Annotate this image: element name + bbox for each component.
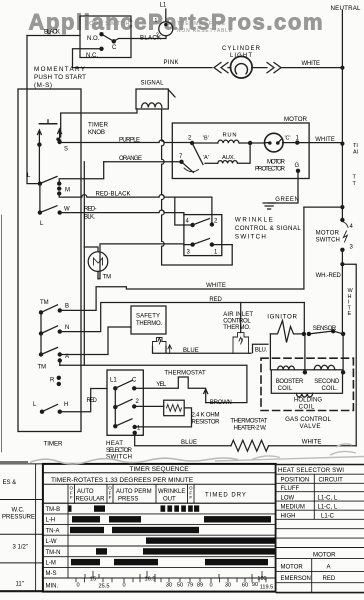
- svg-text:BLU.: BLU.: [255, 348, 268, 354]
- wire neutral lower: [341, 250, 343, 334]
- wire yel with thermostat: [143, 377, 205, 388]
- svg-text:0: 0: [122, 583, 125, 589]
- svg-text:NON RESETTABLE: NON RESETTABLE: [177, 28, 233, 34]
- svg-text:RED: RED: [209, 297, 222, 303]
- svg-text:C: C: [132, 378, 137, 384]
- svg-text:MOTOR: MOTOR: [313, 551, 336, 558]
- svg-text:30: 30: [166, 583, 172, 589]
- contact TM-B: [39, 310, 43, 314]
- svg-text:WHITE: WHITE: [302, 440, 322, 446]
- svg-text:(M-S): (M-S): [34, 82, 52, 89]
- svg-text:COIL: COIL: [278, 386, 293, 392]
- brown arrow up: [204, 389, 208, 403]
- svg-text:SAFETY: SAFETY: [136, 314, 160, 320]
- svg-text:COIL: COIL: [299, 405, 315, 411]
- svg-text:DOOR SWITCH: DOOR SWITCH: [85, 21, 130, 27]
- svg-text:RED: RED: [323, 576, 336, 582]
- crossing arrows right of lamp: [267, 63, 281, 73]
- svg-text:25.5: 25.5: [99, 584, 110, 590]
- wrinkle contact 4-2: [190, 223, 194, 227]
- wire blue: [153, 347, 252, 354]
- svg-text:TN-A: TN-A: [46, 528, 60, 534]
- svg-text:N: N: [65, 325, 69, 331]
- node booster-second: [303, 370, 307, 374]
- contact M dots: [57, 181, 61, 185]
- svg-text:TIMED DRY: TIMED DRY: [205, 492, 247, 498]
- svg-text:16.5: 16.5: [145, 577, 156, 583]
- svg-text:90: 90: [252, 582, 258, 588]
- motor terminal 2: [190, 141, 194, 145]
- gray squiggle bottom: [30, 458, 238, 464]
- wire sensor drop: [342, 334, 344, 372]
- motor protector: [265, 133, 284, 152]
- motor terminal 7: [179, 160, 183, 164]
- svg-text:TIMER SEQUENCE: TIMER SEQUENCE: [129, 466, 189, 473]
- svg-text:OUT: OUT: [163, 496, 176, 502]
- wire left dot drop: [38, 145, 40, 184]
- door switch N.O. contact: [99, 32, 103, 36]
- svg-text:F: F: [109, 495, 112, 500]
- svg-text:0: 0: [76, 583, 79, 589]
- svg-text:PROTECTOR: PROTECTOR: [255, 167, 286, 173]
- wire white drop from neutral: [303, 207, 305, 289]
- door switch N.C. contact: [99, 47, 103, 51]
- wire signal to S contact: [61, 109, 137, 137]
- wire N to red: [60, 303, 304, 332]
- svg-text:AppliancePartsPros.com: AppliancePartsPros.com: [29, 10, 323, 35]
- svg-text:2: 2: [156, 33, 159, 39]
- svg-text:119.5: 119.5: [260, 585, 274, 591]
- svg-text:NEUTRAL: NEUTRAL: [331, 5, 362, 12]
- svg-text:M: M: [65, 188, 70, 194]
- svg-text:WHITE: WHITE: [206, 283, 226, 289]
- timer sequence table frame: [43, 464, 276, 592]
- svg-text:MOTOR: MOTOR: [284, 116, 308, 123]
- svg-text:AUTO PERM: AUTO PERM: [116, 489, 152, 495]
- door switch box: [80, 16, 131, 58]
- wire 1 to signal bus: [212, 244, 232, 246]
- svg-text:G: G: [295, 163, 300, 169]
- svg-text:SWITCH: SWITCH: [316, 238, 340, 244]
- svg-text:L1-C, L: L1-C, L: [318, 495, 338, 501]
- wire resistor to 1: [135, 408, 192, 427]
- svg-text:LOW: LOW: [281, 495, 295, 501]
- wire coil mid drop: [304, 334, 306, 372]
- svg-text:R: R: [50, 378, 55, 384]
- svg-text:11": 11": [16, 582, 24, 588]
- wire bus vertical 84: [83, 162, 85, 365]
- wire motor white out: [297, 142, 342, 144]
- cylinder light LP1: [231, 56, 253, 78]
- svg-text:MOTOR: MOTOR: [267, 160, 286, 166]
- svg-text:TM-B: TM-B: [46, 507, 61, 513]
- svg-text:RUN: RUN: [223, 133, 237, 139]
- svg-text:N.O.: N.O.: [87, 36, 100, 42]
- wire RED to heat selector: [60, 389, 107, 412]
- svg-text:THERMAL FUSE: THERMAL FUSE: [177, 21, 226, 27]
- svg-text:YEL: YEL: [156, 382, 167, 388]
- svg-text:SENSOR: SENSOR: [313, 326, 337, 332]
- svg-text:HOLDING: HOLDING: [294, 398, 323, 404]
- svg-text:PINK: PINK: [164, 60, 179, 66]
- svg-text:GREEN: GREEN: [275, 197, 299, 203]
- svg-text:50: 50: [177, 583, 183, 589]
- svg-text:PURPLE: PURPLE: [119, 138, 140, 144]
- push to start button: [39, 123, 56, 125]
- svg-text:THERMO.: THERMO.: [136, 321, 162, 327]
- svg-text:RED-BLACK: RED-BLACK: [96, 192, 131, 198]
- heat selector switch box: [107, 370, 143, 435]
- timer box: [18, 89, 81, 432]
- wrinkle switch box: [184, 215, 222, 256]
- svg-text:60: 60: [242, 583, 248, 589]
- svg-text:TM: TM: [103, 275, 112, 281]
- svg-text:CYLINDER: CYLINDER: [222, 46, 261, 52]
- svg-text:TM: TM: [38, 365, 47, 371]
- svg-text:L1: L1: [160, 3, 167, 9]
- svg-text:THERMOSTAT: THERMOSTAT: [230, 419, 267, 425]
- ignitor element: [270, 321, 304, 343]
- wire green: [269, 171, 298, 203]
- svg-text:GAS CONTROL: GAS CONTROL: [285, 416, 331, 423]
- wire white to bus: [269, 445, 357, 447]
- bottom boundary: [0, 461, 28, 463]
- wire A lower to brown stub: [59, 361, 61, 366]
- wire air inlet to red: [240, 303, 242, 333]
- wire TM top to bus: [84, 247, 98, 252]
- svg-text:PRESSURE: PRESSURE: [2, 515, 35, 521]
- blue arrow: [168, 345, 172, 354]
- push to start contacts with arrows: [38, 129, 62, 145]
- motor centrifugal switch: [192, 143, 203, 165]
- wire red drop to ignitor: [303, 303, 305, 334]
- wire left dots vertical: [39, 184, 41, 213]
- timer sequence bars: [69, 505, 72, 511]
- svg-text:30: 30: [225, 583, 231, 589]
- svg-text:S: S: [64, 147, 68, 153]
- contact L upper: [38, 181, 42, 185]
- gas valve inner box: [271, 370, 342, 394]
- svg-text:SECOND: SECOND: [314, 379, 340, 385]
- wire ignitor left drop: [269, 334, 271, 370]
- timer minute scale: [75, 578, 77, 582]
- left cut-off table: [0, 464, 43, 592]
- timer motor TM: [88, 252, 108, 272]
- svg-text:BLUE: BLUE: [181, 440, 197, 446]
- svg-text:W: W: [64, 207, 70, 213]
- svg-text:MEDIUM: MEDIUM: [281, 505, 305, 511]
- wire neutral to drop: [304, 206, 343, 208]
- wire W to wrinkle box: [60, 210, 184, 215]
- wrinkle contact 3-1: [190, 242, 194, 246]
- svg-text:M-S: M-S: [46, 571, 57, 577]
- crossing arrows left of lamp: [214, 63, 228, 73]
- svg-text:HIGH: HIGH: [281, 514, 296, 520]
- svg-text:N.C.: N.C.: [86, 53, 98, 59]
- svg-text:TIMER-ROTATES 1.33 DEGREES PER: TIMER-ROTATES 1.33 DEGREES PER MINUTE: [51, 477, 194, 484]
- wire PINK: [73, 67, 213, 69]
- svg-text:B: B: [65, 304, 69, 310]
- contact TM-A: [39, 352, 43, 356]
- motor box: [172, 123, 309, 179]
- sensor element: [309, 331, 343, 334]
- svg-text:ES &: ES &: [3, 480, 17, 486]
- motor internal node: [248, 141, 252, 145]
- svg-text:79: 79: [187, 583, 193, 589]
- wire brown horizontal: [60, 365, 247, 402]
- motor terminal G: [296, 169, 300, 173]
- contact R dots: [57, 376, 61, 380]
- svg-text:KNOB: KNOB: [88, 129, 105, 136]
- svg-text:WH.-RED: WH.-RED: [316, 273, 342, 279]
- gas control valve dashed box: [261, 358, 353, 410]
- booster coil: [278, 366, 295, 370]
- svg-text:TI: TI: [353, 143, 358, 149]
- wire to lamp: [228, 67, 231, 69]
- svg-text:THERMO.: THERMO.: [223, 325, 251, 331]
- svg-text:MIN.: MIN.: [46, 584, 59, 590]
- svg-text:CONTROL & SIGNAL: CONTROL & SIGNAL: [235, 225, 301, 232]
- svg-text:L1-C: L1-C: [321, 514, 335, 520]
- wire A to safety thermo: [60, 327, 131, 355]
- wire 2 to resistor: [134, 405, 164, 407]
- signal coil: [142, 103, 162, 108]
- wire left dots vertical 2: [40, 312, 42, 354]
- svg-text:HEATER-2 W.: HEATER-2 W.: [234, 426, 267, 432]
- wire from N.C. to pink node: [73, 49, 102, 68]
- wire TM bottom to contact3 wire: [97, 271, 99, 278]
- page edge line: [1, 215, 3, 452]
- svg-text:WRINKLE: WRINKLE: [158, 489, 185, 495]
- motor aux winding: [205, 162, 218, 164]
- wire from door switch C to thermal fuse: [114, 36, 166, 42]
- svg-text:IGNITOR: IGNITOR: [267, 314, 297, 321]
- safety thermostat element: [153, 338, 167, 347]
- svg-text:BOOSTER: BOOSTER: [276, 379, 304, 385]
- svg-text:COIL.: COIL.: [322, 386, 339, 392]
- wire 3 to TM return: [98, 244, 193, 279]
- svg-text:H: H: [64, 402, 68, 408]
- wire B to white staircase: [60, 287, 304, 311]
- motor terminal 1: [295, 140, 299, 144]
- svg-text:15: 15: [90, 577, 96, 583]
- svg-text:SIGNAL: SIGNAL: [141, 81, 165, 87]
- svg-text:89: 89: [197, 583, 203, 589]
- resistor box 2.4K: [164, 400, 185, 416]
- contact W dot: [58, 210, 62, 214]
- svg-text:POSITION: POSITION: [281, 477, 310, 483]
- holding coil: [296, 393, 312, 397]
- svg-text:MOMENTARY: MOMENTARY: [34, 66, 86, 73]
- node neutral-motor: [340, 142, 344, 146]
- wire signal drop bus: [162, 109, 233, 265]
- svg-text:L-M: L-M: [46, 561, 56, 567]
- wire PURPLE: [60, 140, 193, 143]
- node wh-red: [340, 262, 344, 266]
- svg-text:L1: L1: [110, 378, 117, 384]
- node sensor right: [341, 332, 345, 336]
- wire ORANGE: [104, 161, 182, 163]
- resistor element: [167, 405, 182, 412]
- svg-text:ORANGE: ORANGE: [119, 156, 142, 162]
- contact L-H: [40, 410, 44, 414]
- svg-text:109: 109: [257, 576, 266, 582]
- svg-text:2.4 K OHM: 2.4 K OHM: [192, 413, 220, 419]
- svg-text:TIMER: TIMER: [44, 441, 64, 448]
- motor switch contacts: [340, 218, 344, 222]
- wire M to orange: [59, 162, 103, 184]
- wire BLACK from L1 to door switch: [27, 35, 80, 37]
- svg-text:FLUFF: FLUFF: [281, 486, 300, 492]
- svg-text:WHITE: WHITE: [302, 61, 321, 67]
- wire to white bus right: [342, 264, 356, 446]
- wire red-black branch to 4: [175, 197, 193, 225]
- svg-text:HEAT SELECTOR SWI: HEAT SELECTOR SWI: [278, 467, 344, 474]
- svg-text:TM-N: TM-N: [46, 550, 61, 556]
- svg-text:'B': 'B': [203, 136, 209, 142]
- svg-text:TIMER: TIMER: [88, 122, 109, 129]
- svg-text:BLACK: BLACK: [44, 30, 60, 36]
- svg-text:BROWN: BROWN: [210, 400, 232, 406]
- svg-text:L1-C, L: L1-C, L: [318, 505, 338, 511]
- svg-text:REGULAR: REGULAR: [76, 496, 106, 502]
- svg-text:A: A: [327, 565, 331, 571]
- svg-text:CIRCUIT: CIRCUIT: [319, 477, 344, 483]
- node white-neutral: [340, 66, 344, 70]
- svg-text:'C': 'C': [285, 136, 291, 142]
- svg-text:RED-: RED-: [84, 207, 97, 213]
- thermostat heater element: [231, 440, 269, 451]
- svg-text:WHITE: WHITE: [315, 137, 335, 143]
- svg-text:L-H: L-H: [46, 518, 56, 524]
- heat selector switch table: [276, 465, 364, 593]
- svg-text:1: 1: [155, 18, 158, 24]
- svg-text:CONTROL: CONTROL: [223, 319, 251, 325]
- svg-text:SWITCH: SWITCH: [235, 234, 266, 241]
- contact N: [39, 331, 43, 335]
- motor run winding: [192, 142, 218, 144]
- svg-text:MOTOR: MOTOR: [316, 231, 340, 237]
- ignitor nodes: [302, 332, 306, 336]
- wire S up to signal: [60, 140, 61, 142]
- svg-text:PRESS: PRESS: [118, 496, 138, 502]
- heat selector common vertical: [114, 388, 116, 426]
- svg-text:RED: RED: [87, 398, 98, 404]
- signal box: [136, 89, 168, 109]
- svg-text:MOTOR: MOTOR: [281, 565, 304, 571]
- svg-text:F: F: [70, 495, 73, 500]
- air inlet thermostat element: [233, 333, 249, 354]
- svg-text:VALVE: VALVE: [300, 423, 321, 430]
- thermal fuse F1: [159, 22, 173, 36]
- heat selector contact 1: [113, 424, 117, 428]
- heat selector contact 2: [113, 405, 117, 409]
- BLU tag bracket: [253, 344, 269, 352]
- svg-text:E: E: [348, 311, 352, 317]
- svg-text:3 1/2": 3 1/2": [13, 545, 28, 551]
- svg-text:BLUE: BLUE: [183, 348, 199, 354]
- wire vertical black bus left: [27, 36, 39, 184]
- svg-text:TM: TM: [40, 300, 49, 306]
- wire YEL out: [134, 387, 143, 389]
- wire 1 down to blue2: [135, 433, 231, 446]
- svg-text:THERMOSTAT: THERMOSTAT: [164, 371, 206, 377]
- node neutral-207: [340, 205, 344, 209]
- svg-text:BLK.: BLK.: [84, 215, 95, 221]
- wire WHITE to neutral: [281, 67, 342, 69]
- wire RED-BLACK: [59, 194, 212, 225]
- wire from lamp: [252, 67, 267, 69]
- heat selector L1-C contact: [113, 386, 117, 390]
- svg-text:AI: AI: [353, 150, 359, 156]
- svg-text:AIR INLET: AIR INLET: [223, 312, 253, 318]
- svg-text:EMERSON: EMERSON: [281, 576, 311, 582]
- svg-text:'A': 'A': [203, 155, 209, 161]
- svg-text:F: F: [189, 495, 192, 500]
- svg-text:RESISTOR: RESISTOR: [192, 420, 221, 426]
- second coil: [314, 365, 334, 370]
- svg-text:C: C: [112, 45, 117, 51]
- svg-text:0: 0: [209, 583, 212, 589]
- motor switch arm: [343, 222, 348, 242]
- svg-text:PUSH TO START: PUSH TO START: [34, 74, 86, 81]
- safety thermostat box: [131, 306, 166, 334]
- svg-text:A: A: [65, 354, 69, 360]
- svg-text:W.C.: W.C.: [12, 508, 25, 514]
- svg-text:AUTO: AUTO: [77, 489, 94, 495]
- ground: [263, 203, 275, 209]
- contact W left dot: [38, 210, 42, 214]
- svg-text:AUX.: AUX.: [222, 155, 235, 161]
- wire NEUTRAL bus: [341, 11, 343, 221]
- svg-text:L-W: L-W: [46, 539, 57, 545]
